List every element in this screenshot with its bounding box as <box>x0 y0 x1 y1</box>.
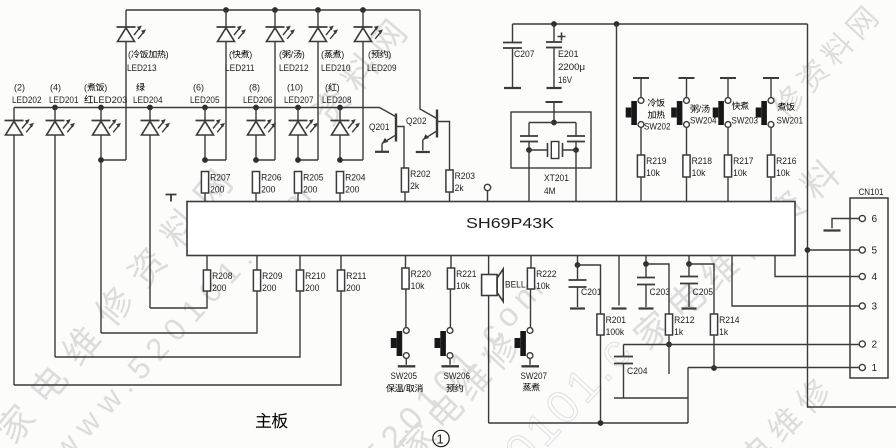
wire LED212 anode stub from top rail <box>274 10 276 27</box>
wire ground line y398 <box>614 397 688 399</box>
svg-text:SW207: SW207 <box>521 371 548 382</box>
switch SW201 <box>756 98 774 128</box>
wire R202 to IC <box>404 192 406 202</box>
svg-text:C205: C205 <box>693 287 714 298</box>
resistor R217 10k <box>724 155 753 179</box>
switch SW203 <box>713 98 731 128</box>
wire LED210 anode stub from top rail <box>317 10 319 27</box>
resistor R219 10k <box>637 155 666 179</box>
wire LED206 cathode to junction <box>255 135 257 160</box>
junction node LED207/LED210 <box>295 157 301 163</box>
label 4M <box>544 186 556 197</box>
wire LED210 cathode down to junction row <box>317 42 319 161</box>
wire VDD rail right side down to bottom <box>808 24 896 407</box>
junction top rail / LED209 <box>360 7 366 13</box>
svg-text:R219: R219 <box>646 156 666 167</box>
wire IC to BELL <box>488 256 490 275</box>
junction R214 / pin1 net <box>711 365 717 371</box>
wire LED207 cathode to junction <box>297 135 299 160</box>
label 蒸煮 of SW207 <box>523 383 540 391</box>
transistor Q202 <box>422 110 449 171</box>
wire XT201 pin1 to IC <box>528 150 530 202</box>
wire BELL to ground line <box>488 296 490 424</box>
label 16V <box>558 75 573 86</box>
LED LED210 <box>309 26 339 42</box>
svg-text:(10): (10) <box>287 83 303 93</box>
svg-text:R211: R211 <box>346 271 366 282</box>
wire junction LED203/LED213 <box>101 159 126 161</box>
wire R210 return to LED column <box>55 291 300 357</box>
label LED209 <box>367 63 397 74</box>
wire CN101 pin5 to VDD <box>808 249 862 251</box>
label C207 <box>514 49 535 60</box>
label C204 <box>627 366 648 377</box>
capacitor C205 <box>680 264 698 307</box>
wire IC to R211 <box>340 256 342 271</box>
svg-text:2: 2 <box>872 340 878 351</box>
svg-text:C204: C204 <box>627 366 648 377</box>
IC U SH69P43K body <box>187 202 795 256</box>
resistor R220 10k <box>402 268 431 292</box>
CN101 pin 6 terminal <box>859 215 865 221</box>
svg-text:2200μ: 2200μ <box>558 62 585 73</box>
wire R205 to IC <box>297 193 299 202</box>
junction anode bus / LED201 <box>52 105 58 111</box>
label SW203 <box>732 116 759 127</box>
junction anode bus / LED206 <box>253 105 259 111</box>
svg-text:200: 200 <box>305 283 319 294</box>
svg-text:R221: R221 <box>456 269 476 280</box>
resistor R201 100k <box>597 314 626 338</box>
wire node to R214 <box>689 264 714 314</box>
label 2200u <box>558 62 585 73</box>
LED LED203 <box>92 119 122 135</box>
svg-text:LED207: LED207 <box>284 95 314 106</box>
svg-text:LED210: LED210 <box>321 63 351 74</box>
wire IC to R208 <box>206 256 208 271</box>
resistor R216 10k <box>767 155 796 179</box>
label 冷饭 of SW202 <box>648 98 665 106</box>
svg-text:R214: R214 <box>719 315 739 326</box>
label C205 <box>693 287 714 298</box>
label (快煮) for LED211 <box>229 50 252 60</box>
svg-text:SW204: SW204 <box>690 116 717 127</box>
capacitor C207 <box>503 24 522 87</box>
resistor R212 1k <box>665 314 694 338</box>
wire LED208 cathode to junction <box>339 135 341 160</box>
LED LED212 <box>266 26 296 42</box>
wire IC to CN101 pin4 <box>775 256 862 277</box>
label SW202 <box>644 122 671 133</box>
wire T-bar to SW201 <box>770 78 772 98</box>
svg-text:SW206: SW206 <box>444 371 471 382</box>
LED LED206 <box>247 119 277 135</box>
wire CN101 pin1 net <box>688 367 862 369</box>
svg-text:R212: R212 <box>674 315 694 326</box>
polarity + of E201 <box>558 33 566 41</box>
junction node C205/R214 <box>686 261 692 267</box>
resistor R209 200 <box>253 270 282 294</box>
wire IC to node C203 <box>645 256 647 265</box>
label Q201 <box>369 122 390 133</box>
svg-text:R220: R220 <box>411 269 431 280</box>
svg-text:200: 200 <box>346 283 360 294</box>
wire R204 to IC <box>339 193 341 202</box>
svg-text:SW203: SW203 <box>732 116 759 127</box>
label (4) for LED201 <box>50 83 61 93</box>
wire ground line BELL/R201 <box>489 422 688 424</box>
transistor Q201 <box>382 114 404 169</box>
label (8) for LED206 <box>249 83 260 93</box>
label 加热 of SW202 <box>648 110 665 118</box>
supply T-bar above SW203 <box>720 77 736 79</box>
supply T-bar above SW204 <box>679 77 695 79</box>
svg-text:(4): (4) <box>50 83 61 93</box>
wire LED212 cathode down to junction row <box>274 42 276 161</box>
wire IC to R209 <box>256 256 258 271</box>
wire LED209 anode stub from top rail <box>362 10 364 27</box>
junction node LED206/LED212 <box>253 157 259 163</box>
wire junction LED208/LED209 <box>340 159 363 161</box>
wire junction LED205/LED211 <box>205 159 226 161</box>
svg-text:R208: R208 <box>212 271 232 282</box>
label LED202 <box>12 95 42 106</box>
svg-text:(: ( <box>321 50 324 60</box>
wire R214 to CN101 pin1 net <box>713 335 715 368</box>
svg-text:): ) <box>104 83 107 93</box>
svg-text:(: ( <box>368 50 371 60</box>
label (10) for LED207 <box>287 83 303 93</box>
svg-text:R206: R206 <box>261 173 281 184</box>
svg-text:200: 200 <box>345 185 359 196</box>
svg-text:1: 1 <box>872 363 878 374</box>
label 绿 for LED204 <box>136 83 144 91</box>
junction top rail / LED210 <box>315 7 321 13</box>
label LED201 <box>49 95 79 106</box>
wire R217 to IC <box>727 177 729 202</box>
svg-text:10k: 10k <box>692 168 706 179</box>
LED LED211 <box>217 26 247 42</box>
wire CN101 pin6 to ground <box>832 219 862 229</box>
svg-text:3: 3 <box>872 302 878 313</box>
resistor R210 200 <box>296 270 325 294</box>
wire LED204 cathode column down <box>149 135 151 308</box>
junction node XT201 pin2 <box>573 147 579 153</box>
ground at Q201 emitter <box>375 151 389 153</box>
CN101 pin 3 terminal <box>859 303 865 309</box>
wire junction LED207/LED210 <box>298 159 318 161</box>
wire T-bar to SW203 <box>727 78 729 98</box>
wire R206 to IC <box>255 193 257 202</box>
label SW206 <box>444 371 471 382</box>
CN101 pin 4 terminal <box>859 273 865 279</box>
label XT201 <box>544 173 569 184</box>
capacitor osc right <box>567 123 585 151</box>
label SW207 <box>521 371 548 382</box>
label (6) for LED205 <box>193 83 204 93</box>
svg-text:Q201: Q201 <box>369 122 390 133</box>
junction node osc top <box>551 120 557 126</box>
supply T-bar above SW201 <box>763 77 779 79</box>
wire LED205 stub from bus <box>204 108 206 121</box>
wire top right power rail <box>513 23 808 25</box>
svg-text:1: 1 <box>437 432 444 447</box>
label 煮饭 of SW201 <box>778 102 795 110</box>
svg-text:LED205: LED205 <box>190 95 220 106</box>
LED LED204 <box>141 119 171 135</box>
svg-text:R207: R207 <box>210 173 230 184</box>
wire IC to R221 <box>450 256 452 269</box>
svg-text:10k: 10k <box>411 281 425 292</box>
wire LED203 stub from bus <box>100 108 102 121</box>
junction node XT201 pin1 <box>526 147 532 153</box>
resistor R206 200 <box>252 172 281 196</box>
switch SW205 <box>391 328 416 367</box>
svg-text:): ) <box>302 50 305 60</box>
LED LED205 <box>196 119 226 135</box>
wire R212 to CN101 pin2 net <box>668 335 670 345</box>
label (煮饭) for LED203 <box>84 83 107 93</box>
svg-text:LED202: LED202 <box>12 95 42 106</box>
CN101 pin 1 terminal <box>859 364 865 370</box>
wire LED202 cathode column down <box>13 135 15 385</box>
svg-text:R202: R202 <box>410 169 430 180</box>
wire SW201 to R216 <box>770 127 772 155</box>
svg-text:(: ( <box>325 83 328 93</box>
svg-text:100k: 100k <box>606 327 625 338</box>
wire IC to R220 <box>405 256 407 269</box>
wire LED208 stub from bus <box>339 108 341 121</box>
wire R212 stub below <box>668 345 670 375</box>
label (2) for LED202 <box>14 83 25 93</box>
svg-text:(: ( <box>128 50 131 60</box>
label Q202 <box>406 116 427 127</box>
svg-text:200: 200 <box>303 185 317 196</box>
wire R219 to IC <box>640 177 642 202</box>
junction rail / key matrix feed <box>614 21 620 27</box>
connector CN101 box <box>850 187 888 378</box>
svg-text:SW201: SW201 <box>777 116 804 127</box>
wire key matrix feed rail to IC <box>616 24 618 202</box>
svg-text:): ) <box>388 50 391 60</box>
wire LED209 cathode down to junction row <box>362 42 364 161</box>
resistor R207 200 <box>201 172 230 196</box>
switch SW204 <box>671 98 689 128</box>
junction R212 / pin2 net <box>666 342 672 348</box>
label E201 <box>558 49 579 60</box>
wire LED202 stub from bus <box>13 108 15 121</box>
ground bar at CN101 pin6 <box>824 229 841 231</box>
LED LED213 <box>117 26 147 42</box>
wire anode bus of second LED row (to Q201 base) <box>14 108 396 117</box>
ground at Q202 emitter <box>416 151 430 153</box>
svg-text:4: 4 <box>872 272 878 283</box>
label LED208 <box>322 95 352 106</box>
ground bar under IC pin <box>612 307 627 309</box>
svg-text:10k: 10k <box>456 281 470 292</box>
label (红) for LED208 <box>325 83 340 93</box>
label 快煮 of SW203 <box>732 101 749 109</box>
wire T-bar to SW204 <box>686 78 688 98</box>
svg-text:6: 6 <box>872 214 878 225</box>
svg-text:XT201: XT201 <box>544 173 569 184</box>
wire R216 to IC <box>770 177 772 202</box>
label LED204 <box>133 95 163 106</box>
wire IC ground pin <box>618 256 620 306</box>
svg-text:LED211: LED211 <box>225 63 255 74</box>
svg-text:R222: R222 <box>536 269 556 280</box>
svg-text:10k: 10k <box>776 168 790 179</box>
wire R220 to SW205 <box>405 289 407 328</box>
wire XT201 pin2 to IC <box>575 150 577 202</box>
svg-text:R209: R209 <box>262 271 282 282</box>
svg-text:SH69P43K: SH69P43K <box>466 215 554 232</box>
svg-text:/: / <box>699 104 702 114</box>
wire SW202 to R219 <box>640 127 642 155</box>
CN101 pin 3 number <box>872 302 878 313</box>
resistor R202 2k <box>401 168 430 192</box>
junction VDD / CN101 pin5 <box>805 247 811 253</box>
wire R221 to SW206 <box>449 289 451 328</box>
junction node LED203/LED213 <box>98 157 104 163</box>
ground bar under C203 <box>639 307 654 309</box>
caption 主板 (main board) <box>256 413 288 429</box>
wire LED205 cathode to junction <box>204 135 206 160</box>
wire CN101 pin2 net <box>624 344 862 346</box>
test pin circle on IC top <box>484 184 490 190</box>
svg-text:4M: 4M <box>544 186 556 197</box>
wire IC to node C201 <box>577 256 579 266</box>
svg-text:E201: E201 <box>558 49 579 60</box>
label LED207 <box>284 95 314 106</box>
svg-text:): ) <box>249 50 252 60</box>
resistor R222 10k <box>527 268 556 292</box>
wire LED201 cathode column down <box>54 135 56 357</box>
CN101 pin 1 number <box>872 363 878 374</box>
junction node LED208/LED209 <box>337 157 343 163</box>
svg-text:R218: R218 <box>692 156 712 167</box>
label SW201 <box>777 116 804 127</box>
supply tick on IC top-left pin <box>166 195 177 202</box>
ground bar under C201 <box>570 307 585 309</box>
wire LED207 stub from bus <box>297 108 299 121</box>
junction node C201/R201 <box>575 262 581 268</box>
wire R222 to SW207 <box>530 289 532 328</box>
label SW204 <box>690 116 717 127</box>
label (粥/汤) for LED212 <box>279 50 305 60</box>
resistor R214 1k <box>710 314 739 338</box>
capacitor C203 <box>637 264 655 307</box>
wire R211 return to LED column <box>14 291 341 385</box>
resistor R208 200 <box>203 270 232 294</box>
resistor R204 200 <box>336 172 365 196</box>
svg-text:200: 200 <box>262 283 276 294</box>
svg-text:SW202: SW202 <box>644 122 671 133</box>
label LED213 <box>127 63 157 74</box>
svg-text:LED203: LED203 <box>93 95 127 106</box>
svg-text:R216: R216 <box>776 156 796 167</box>
CN101 pin 2 number <box>872 340 878 351</box>
svg-text:(2): (2) <box>14 83 25 93</box>
wire LED203 cathode column down <box>100 135 102 333</box>
wire R209 return to LED column <box>101 291 257 333</box>
CN101 pin 2 terminal <box>859 341 865 347</box>
svg-text:200: 200 <box>212 283 226 294</box>
label LED211 <box>225 63 255 74</box>
wire IC to R210 <box>299 256 301 271</box>
svg-text:(: ( <box>279 50 282 60</box>
wire node to R201 <box>578 265 601 314</box>
label (蒸煮) for LED210 <box>321 50 344 60</box>
junction anode bus / LED208 <box>337 105 343 111</box>
svg-text:C203: C203 <box>650 287 671 298</box>
wire T-bar to SW202 <box>640 78 642 98</box>
junction R201 / ground line <box>598 420 604 426</box>
svg-text:200: 200 <box>210 185 224 196</box>
junction rail / E201 <box>551 21 557 27</box>
svg-text:10k: 10k <box>536 281 550 292</box>
wire node to R212 <box>646 264 669 314</box>
svg-text:Q202: Q202 <box>406 116 427 127</box>
LED LED207 <box>289 119 319 135</box>
svg-text:(8): (8) <box>249 83 260 93</box>
supply T-bar above XT201 <box>546 101 563 103</box>
wire R207 to IC <box>204 193 206 202</box>
svg-text:LED213: LED213 <box>127 63 157 74</box>
label LED212 <box>279 63 309 74</box>
wire osc top rail <box>529 122 576 124</box>
capacitor C201 <box>569 265 587 307</box>
wire LED213 cathode down to junction row <box>125 42 127 161</box>
label SW205 <box>391 371 418 382</box>
wire LED211 cathode down to junction row <box>225 42 227 161</box>
svg-text:1k: 1k <box>674 327 683 338</box>
LED LED201 <box>46 119 76 135</box>
wire T-bar into oscillator box <box>553 102 555 123</box>
junction top rail / LED212 <box>272 7 278 13</box>
svg-text:R210: R210 <box>305 271 325 282</box>
wire R218 to IC <box>686 177 688 202</box>
svg-text:LED209: LED209 <box>367 63 397 74</box>
svg-text:16V: 16V <box>558 75 573 86</box>
junction anode bus / LED205 <box>202 105 208 111</box>
svg-text:LED201: LED201 <box>49 95 79 106</box>
CN101 pin 5 number <box>872 246 878 257</box>
junction node LED205/LED211 <box>202 157 208 163</box>
junction anode bus / LED203 <box>98 105 104 111</box>
wire pin1 net down to ground lines <box>687 368 689 424</box>
CN101 pin 4 number <box>872 272 878 283</box>
switch SW207 <box>515 328 540 367</box>
wire top rail feeding LED213/LED211/LED212/LED210/LED209 and Q202 collector <box>126 9 420 11</box>
svg-text:/: / <box>403 384 406 394</box>
svg-text:10k: 10k <box>733 168 747 179</box>
switch SW202 <box>626 98 644 128</box>
svg-text:(6): (6) <box>193 83 204 93</box>
label C201 <box>581 287 602 298</box>
CN101 pin 5 terminal <box>859 247 865 253</box>
label 红LED203 <box>84 95 127 106</box>
svg-text:10k: 10k <box>646 168 660 179</box>
wire LED204 stub from bus <box>149 108 151 121</box>
svg-text:BELL: BELL <box>505 280 526 291</box>
label (冷饭加热) for LED213 <box>128 50 169 60</box>
svg-text:5: 5 <box>872 246 878 257</box>
junction top rail / LED211 <box>223 7 229 13</box>
label LED206 <box>243 95 273 106</box>
wire R203 to IC <box>449 192 451 202</box>
supply T-bar above SW202 <box>633 77 649 79</box>
